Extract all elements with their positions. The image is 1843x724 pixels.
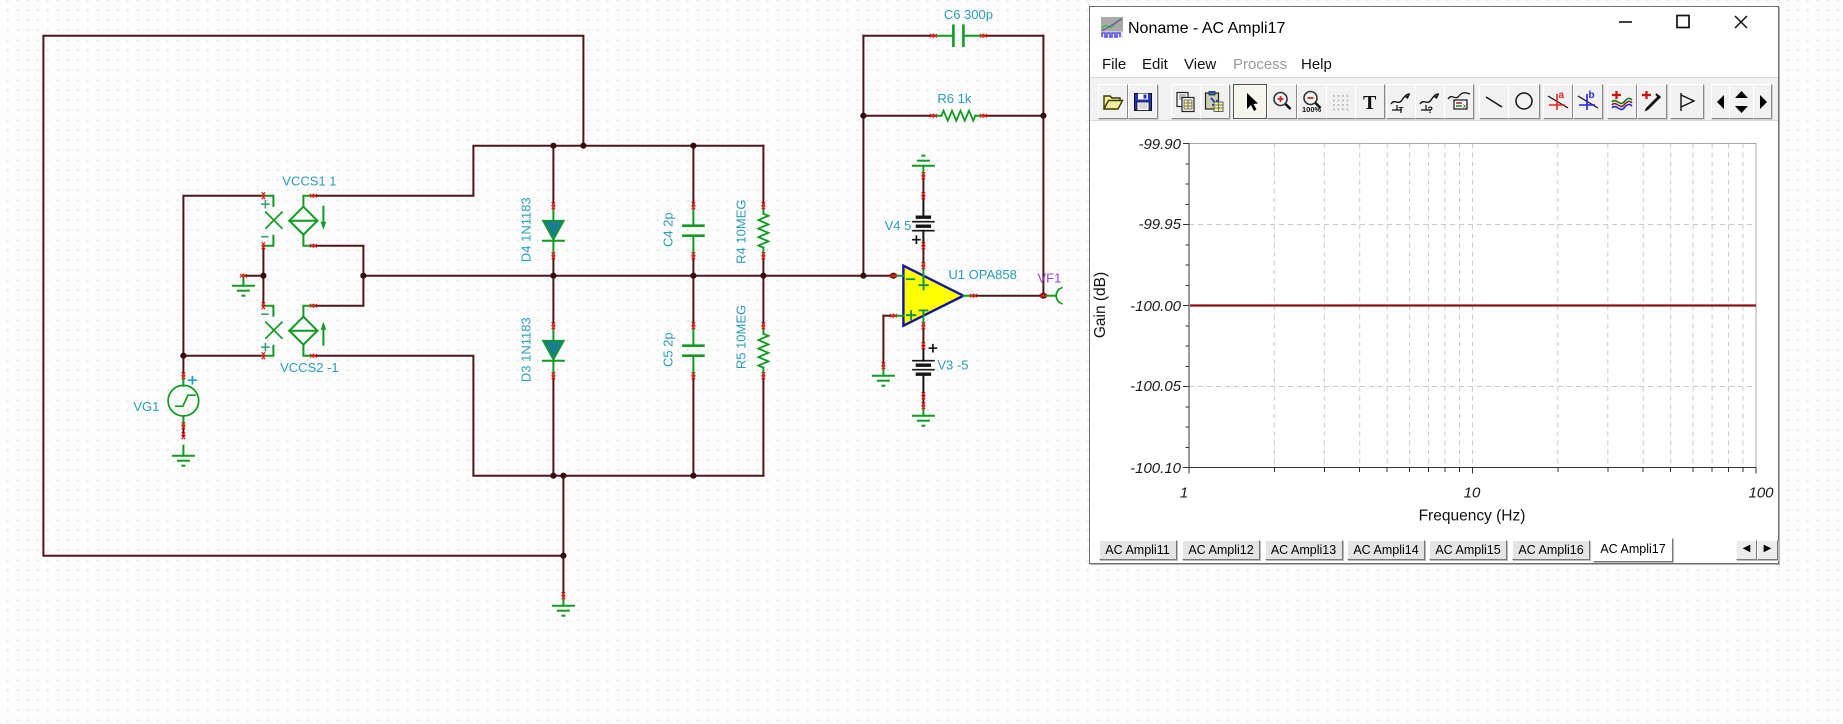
toolbar button: scroll left (1711, 84, 1730, 119)
terminal marks input ground (882, 363, 885, 369)
toolbar button: cursor T (1386, 84, 1416, 119)
U1 input/supply polarity marks (907, 279, 928, 319)
terminal marks VCCS2 out bottom (310, 354, 316, 357)
junction: output node VF1 (1040, 293, 1046, 299)
wire: R6 left lead wire (863, 115, 933, 117)
svg-text:-100.00: -100.00 (1130, 298, 1182, 315)
terminal marks V4 bottom (922, 243, 925, 249)
wire: feedback top right (C6) (983, 35, 1043, 37)
wire: non-inverting input to ground (882, 316, 884, 366)
svg-text:C6 300p: C6 300p (944, 7, 993, 22)
toolbar button: zoom 100% (1297, 84, 1327, 119)
svg-text:V3 -5: V3 -5 (937, 358, 968, 373)
terminal marks D4 anode (552, 203, 555, 209)
svg-text:C5 2p: C5 2p (660, 332, 675, 367)
terminal marks VCCS1 ctrl- (262, 243, 265, 249)
plot frame (1189, 144, 1756, 468)
diode D3 1N1183 (543, 326, 564, 376)
terminal marks C4 top (692, 203, 695, 209)
svg-text:Gain (dB): Gain (dB) (1092, 272, 1109, 338)
terminal marks U1 V- pin (922, 323, 925, 329)
wire: feedback left vertical (862, 36, 864, 276)
capacitor C6 300p (933, 26, 983, 46)
wire: R4 to node A / R5 (762, 256, 764, 326)
wire: outer ground loop (top/left/bottom) (43, 36, 583, 556)
terminal marks C5 bottom (692, 373, 695, 379)
toolbar button: paste (1200, 84, 1230, 119)
VCCS2 output leads (303, 306, 313, 356)
wire: op-amp output to VF1 node (973, 295, 1043, 297)
junction: control common / ground (260, 273, 266, 279)
svg-text:Frequency (Hz): Frequency (Hz) (1419, 508, 1526, 525)
wire: top rail drop to C4 (692, 146, 694, 206)
wire: node A rail to op-amp inverting input (363, 275, 893, 277)
svg-text:VG1: VG1 (133, 399, 159, 414)
horizontal gridlines (1189, 225, 1756, 387)
toolbar button: pick color (1637, 84, 1667, 119)
terminal marks VG1 ground (182, 433, 185, 439)
VCCS2 current direction arrow (321, 322, 327, 345)
toolbar button: legend (1444, 84, 1474, 119)
menu bar (1090, 46, 1778, 77)
wire: R5 to bottom rail (762, 376, 764, 476)
junction: bottom rail / D3 (550, 473, 556, 479)
gain curve at -100.00 dB (1190, 304, 1756, 306)
wire: stub to bottom ground (562, 556, 564, 596)
wire: C5 to bottom rail (692, 376, 694, 476)
junction: op-amp inverting pin (890, 273, 896, 279)
junction: VG1 / VCCS controls (180, 353, 186, 359)
voltage generator VG1 (168, 376, 199, 426)
wire: VCCS2 output to bottom rail (313, 356, 763, 476)
toolbar button: line tool (1479, 84, 1509, 119)
wire: top rail drop to D4 (552, 146, 554, 206)
junction: top rail / C4 (690, 143, 696, 149)
wire: V3 to ground link (922, 396, 924, 406)
toolbar button: add curves (1607, 84, 1637, 119)
terminal marks bottom ground (562, 593, 565, 599)
terminal marks R5 bottom (762, 373, 765, 379)
svg-text:U1 OPA858: U1 OPA858 (948, 267, 1016, 282)
ground at U1 non-inverting input (873, 366, 894, 386)
log grid verticals (1274, 144, 1743, 468)
terminal marks U1 V+ pin (922, 263, 925, 269)
wire: non-inverting input stub (883, 315, 893, 317)
x axis with log ticks (1189, 468, 1756, 474)
toolbar button: open file (1098, 84, 1128, 119)
ground above V4 (inverted) (913, 156, 934, 176)
capacitor C4 2p (683, 206, 703, 256)
terminal marks C6 right (980, 34, 986, 37)
svg-text:-100.10: -100.10 (1130, 460, 1182, 477)
wire: VG1 top lead (182, 356, 184, 376)
junction: node A / capacitor branch (690, 273, 696, 279)
ground at bottom of outer loop (553, 596, 574, 616)
svg-text:-99.90: -99.90 (1138, 136, 1181, 153)
VCCS2 diamond current-source body (289, 317, 317, 345)
terminal marks V4 top (922, 193, 925, 199)
VG1 polarity plus mark (189, 377, 196, 384)
toolbar button: save (1128, 84, 1158, 119)
x axis labels (1180, 485, 1774, 502)
diode D4 1N1183 (543, 206, 564, 256)
controlled source VCCS1: control port bracket (263, 196, 273, 246)
terminal marks V3 bottom (922, 393, 925, 399)
VCCS2 multiplier X symbol (266, 322, 282, 338)
app icon (1101, 17, 1123, 38)
terminal marks VCCS2 ctrl+ (262, 353, 265, 359)
svg-text:100: 100 (1748, 485, 1774, 502)
controlled source VCCS2: control port bracket (263, 306, 273, 356)
junction: top rail / D4 (550, 143, 556, 149)
terminal marks VCCS1 out bottom (310, 244, 316, 247)
terminal marks VCCS1 out top (310, 194, 316, 197)
ground at VCCS control common (233, 276, 254, 296)
junction: node A / resistor branch (760, 273, 766, 279)
y axis labels (1130, 136, 1182, 477)
svg-text:10: 10 (1464, 485, 1481, 502)
resistor R6 1k (933, 111, 983, 121)
wire: VCCS1 output- to node A (313, 246, 363, 276)
wire: R6 right lead wire (983, 115, 1043, 117)
wire: V4 ground link (922, 176, 924, 196)
terminal marks V4 ground (922, 173, 925, 179)
terminal marks control ground (240, 274, 246, 277)
toolbar button: copy (1171, 84, 1201, 119)
junction: VCCS outputs / node A (360, 273, 366, 279)
chart: AC transfer characteristic (1090, 7, 1778, 563)
terminal marks VCCS2 ctrl- (262, 303, 265, 309)
capacitor C5 2p (683, 326, 703, 376)
terminal marks U1 output (970, 294, 976, 297)
terminal marks D3 cathode (552, 373, 555, 379)
wire: VG1 bottom to ground (182, 426, 184, 436)
toolbar button: cursor ? (1415, 84, 1445, 119)
junction: bottom rail / C5 (690, 473, 696, 479)
wire: bottom rail to outer loop (562, 476, 564, 556)
svg-text:1: 1 (1180, 485, 1188, 502)
toolbar button: scroll right (1753, 84, 1772, 119)
output voltage pin VF1 (1043, 288, 1062, 304)
terminal marks R4 bottom (762, 253, 765, 259)
ground at VG1 (173, 446, 194, 466)
VCCS2 control polarity marks (262, 314, 269, 351)
VCCS1 multiplier X symbol (266, 212, 282, 228)
terminal marks C6 left (930, 34, 936, 37)
VCCS1 control polarity marks (262, 201, 269, 237)
terminal marks V3 top (922, 343, 925, 349)
toolbar button: cursor b (1573, 84, 1603, 119)
terminal marks U1 inverting input (890, 274, 896, 277)
svg-text:V4 5: V4 5 (885, 218, 912, 233)
svg-text:D4 1N1183: D4 1N1183 (518, 197, 533, 262)
ground below V3 (913, 406, 934, 426)
window title bar (1090, 7, 1778, 46)
svg-text:R6 1k: R6 1k (937, 91, 971, 106)
terminal marks C4 bottom (692, 253, 695, 259)
y axis with ticks (1183, 144, 1189, 468)
wire: D3 to bottom rail (552, 376, 554, 476)
wire: C4 to node A / C5 (692, 256, 694, 326)
toolbar button: grid (disabled) (1326, 84, 1356, 119)
battery V4 5 (913, 196, 934, 246)
toolbar button: text tool (1355, 84, 1385, 119)
svg-text:VF1: VF1 (1037, 271, 1061, 286)
terminal marks V3 ground (922, 403, 925, 409)
toolbar button: select cursor (active) (1233, 84, 1267, 119)
svg-text:R4 10MEG: R4 10MEG (733, 200, 748, 264)
terminal marks D4 cathode (552, 253, 555, 259)
toolbar button: zoom in (1267, 84, 1297, 119)
wire: VG1+ to VCCS2 control (183, 355, 263, 357)
terminal marks D3 anode (552, 323, 555, 329)
wire: ground stub at control node (243, 275, 263, 277)
toolbar button: spin up/down (1729, 84, 1754, 119)
terminal marks R5 top (762, 323, 765, 329)
wire: feedback right vertical to output (1042, 36, 1044, 296)
battery V3 -5 (913, 346, 934, 396)
terminal marks VG1 top (182, 373, 185, 379)
terminal marks C5 top (692, 323, 695, 329)
terminal marks U1 non-inverting input (890, 314, 896, 317)
junction: outer loop / ground stub (560, 553, 566, 559)
wire: D4 to node A / D3 (552, 256, 554, 326)
svg-text:-99.95: -99.95 (1138, 216, 1181, 233)
VCCS1 output leads (303, 196, 313, 246)
terminal marks VG1 bottom (182, 423, 185, 429)
result page tabs (1090, 537, 1778, 562)
svg-text:C4 2p: C4 2p (660, 212, 675, 247)
wire: top rail drop to R4 (762, 146, 764, 206)
terminal marks R6 left (930, 114, 936, 117)
toolbar button: marker flag (1670, 84, 1704, 119)
wire: VG1+ to VCCS1 control+ (183, 196, 263, 356)
svg-text:VCCS2 -1: VCCS2 -1 (280, 360, 339, 375)
terminal marks VCCS2 out top (310, 304, 316, 307)
junction: feedback left / R6 (860, 113, 866, 119)
toolbar button: circle tool (1508, 84, 1540, 119)
svg-text:VCCS1 1: VCCS1 1 (282, 174, 336, 189)
op-amp U1 OPA858 (893, 265, 973, 327)
terminal marks VF1 (1040, 294, 1046, 297)
junction: bottom rail / ground branch (560, 473, 566, 479)
terminal marks VCCS1 ctrl+ (262, 193, 265, 199)
svg-text:D3 1N1183: D3 1N1183 (518, 317, 533, 382)
VCCS1 current direction arrow (321, 207, 327, 230)
wire: control port common to ground node (262, 246, 264, 306)
svg-text:R5 10MEG: R5 10MEG (733, 305, 748, 369)
junction: node A / feedback network (860, 273, 866, 279)
wire: op-amp V- pin to V3 (922, 327, 924, 346)
wire: VCCS2 output+ to node A (313, 276, 363, 306)
toolbar (1090, 77, 1778, 121)
resistor R4 10MEG (758, 206, 768, 256)
resistor R5 10MEG (758, 326, 768, 376)
junction: top rail / outer loop (580, 143, 586, 149)
wire: V4 to op-amp V+ pin (922, 246, 924, 266)
wire: feedback top left (C6) (863, 35, 933, 37)
svg-text:-100.05: -100.05 (1130, 378, 1182, 395)
wire: VCCS1 output to top rail (313, 146, 763, 196)
VCCS1 diamond current-source body (289, 207, 317, 235)
terminal marks R6 right (980, 114, 986, 117)
toolbar button: cursor a (1543, 84, 1573, 119)
junction: feedback right / R6 (1040, 113, 1046, 119)
junction: node A / diode branch (550, 273, 556, 279)
terminal marks R4 top (762, 203, 765, 209)
